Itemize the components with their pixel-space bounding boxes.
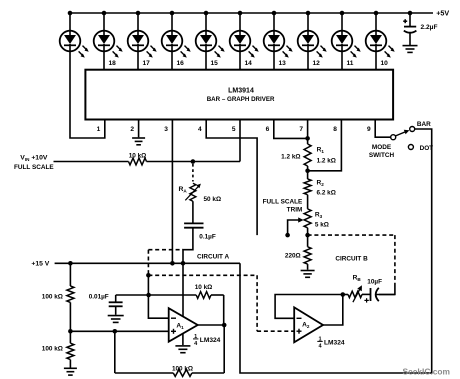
wire LED9 to chip pin 11 xyxy=(341,51,343,69)
svg-text:12: 12 xyxy=(313,60,321,67)
svg-text:BAR – GRAPH DRIVER: BAR – GRAPH DRIVER xyxy=(207,96,275,103)
wire R1-R2 xyxy=(307,166,309,179)
svg-text:5 kΩ: 5 kΩ xyxy=(315,221,329,228)
junction rail/LED5 xyxy=(204,11,209,16)
wire 10k to corner xyxy=(211,294,224,296)
capacitor 0.1uF xyxy=(184,223,203,227)
wire LED8 to chip pin 12 xyxy=(307,51,309,69)
junction rail/LED9 xyxy=(340,11,345,16)
wire feedback down to A1 out xyxy=(223,295,225,325)
wire 220 to ground xyxy=(307,264,309,270)
svg-text:10µF: 10µF xyxy=(367,279,382,286)
capacitor C1 2.2uF polarized xyxy=(403,13,416,45)
wire pin 2 to ground xyxy=(138,120,140,138)
svg-text:50 kΩ: 50 kΩ xyxy=(204,196,222,203)
ground divider xyxy=(64,368,77,375)
LED D8 xyxy=(298,13,327,58)
wire pin 3 (V+) down to +15V line xyxy=(171,120,173,264)
svg-text:11: 11 xyxy=(347,60,354,67)
wire VIN to R 10k xyxy=(54,161,129,163)
wire dashed into A2 + xyxy=(257,330,294,332)
wire LED6 to chip pin 14 xyxy=(239,51,241,69)
junction rail/LED4 xyxy=(170,11,175,16)
wire up into pin 5 xyxy=(239,120,241,162)
resistor 100k feedback bottom xyxy=(173,370,192,377)
svg-text:220Ω: 220Ω xyxy=(285,252,301,259)
svg-text:16: 16 xyxy=(177,60,185,67)
switch SW1 mode xyxy=(391,135,396,140)
wire bottom right segment xyxy=(192,372,224,374)
ground 220 xyxy=(301,271,315,278)
wire divider mid to R 100k lower xyxy=(69,331,71,343)
wire LED4 to chip pin 16 xyxy=(171,51,173,69)
wire pin 7 down xyxy=(307,120,309,145)
svg-text:1: 1 xyxy=(97,126,101,133)
wire RB to C 10uF xyxy=(362,293,370,295)
wire 0.1uF to +15V line xyxy=(183,228,193,264)
wire +5V top rail xyxy=(70,12,433,14)
resistor R1 1.2k xyxy=(304,144,311,166)
op-amp A1 xyxy=(169,308,198,342)
IC U1 LM3914 bar-graph driver xyxy=(85,70,393,120)
potentiometer RA 50k xyxy=(190,183,196,201)
wire A2 - feedback loop xyxy=(275,295,343,319)
wire RA to C 0.1uF xyxy=(192,201,194,223)
wire +15V to R 100k upper xyxy=(69,263,71,286)
ground C1 xyxy=(403,46,418,53)
junction +15V/pin3 xyxy=(170,261,175,266)
junction +15V/divider xyxy=(68,261,73,266)
junction A1 - node xyxy=(146,293,151,298)
svg-text:VIN +10V: VIN +10V xyxy=(20,155,48,163)
wire R2-R3 xyxy=(307,195,309,209)
wire cap top xyxy=(115,295,117,302)
wire up to divider mid xyxy=(114,331,116,373)
svg-text:13: 13 xyxy=(279,60,287,67)
LED D6 xyxy=(230,13,259,58)
junction rail/LED3 xyxy=(136,11,141,16)
junction rail/LED1 xyxy=(68,11,73,16)
svg-text:LM324: LM324 xyxy=(200,337,221,344)
svg-text:CIRCUIT B: CIRCUIT B xyxy=(335,255,368,262)
wire R100k to ground xyxy=(69,360,71,368)
wire cap to ground xyxy=(115,306,117,315)
LED D7 xyxy=(264,13,293,58)
svg-text:LM3914: LM3914 xyxy=(228,88,254,95)
svg-text:TRIM: TRIM xyxy=(287,206,303,213)
svg-text:BAR: BAR xyxy=(417,121,431,128)
svg-text:4: 4 xyxy=(198,126,202,133)
svg-text:100 kΩ: 100 kΩ xyxy=(42,293,63,300)
wire cap out corner xyxy=(379,286,395,295)
capacitor 0.01uF xyxy=(109,302,123,306)
svg-text:15: 15 xyxy=(211,60,219,67)
wire R10k to pin 5 corner xyxy=(147,161,241,163)
wire +15V corner down to bottom and to BAR switch xyxy=(240,129,432,373)
node junction VIN/RA xyxy=(191,159,196,164)
LED D4 xyxy=(162,13,191,58)
resistor R2 6.2k xyxy=(304,179,311,195)
svg-text:7: 7 xyxy=(299,126,303,133)
wire LED2 to chip pin 18 xyxy=(103,51,105,69)
wire divider mid to A1 + xyxy=(70,330,168,332)
junction A1 output xyxy=(222,323,227,328)
wire pin 8 (REF ADJ) xyxy=(308,120,342,171)
junction A1 feedback node xyxy=(113,329,118,334)
junction rail/LED10 xyxy=(374,11,379,16)
wire A1 - input xyxy=(148,275,168,318)
svg-text:2: 2 xyxy=(130,126,134,133)
junction A2 out/RB xyxy=(341,292,346,297)
wire pin 9 to mode switch xyxy=(375,120,390,138)
ground pin 2 xyxy=(132,138,145,145)
label 1/4 LM324 (A2) xyxy=(317,336,345,349)
wire dashed down to A2 input xyxy=(256,275,258,331)
label 1/4 LM324 (A1) xyxy=(193,334,221,347)
junction R3 bottom xyxy=(305,233,310,238)
svg-text:14: 14 xyxy=(245,60,253,67)
wire LED5 to chip pin 15 xyxy=(205,51,207,69)
svg-text:10 kΩ: 10 kΩ xyxy=(129,152,147,159)
wire R3 to 220 xyxy=(307,228,309,247)
junction divider mid xyxy=(68,329,73,334)
svg-text:9: 9 xyxy=(367,126,371,133)
svg-text:10 kΩ: 10 kΩ xyxy=(195,284,213,291)
LED D1 xyxy=(60,13,89,58)
svg-text:CIRCUIT A: CIRCUIT A xyxy=(197,254,229,261)
junction pin6/pin7 xyxy=(305,136,310,141)
svg-text:100 kΩ: 100 kΩ xyxy=(42,346,63,353)
junction rail/LED7 xyxy=(272,11,277,16)
potentiometer R3 5k xyxy=(304,209,311,228)
svg-text:17: 17 xyxy=(143,60,151,67)
wire A1 output xyxy=(198,324,225,326)
wire A1 V- to ground xyxy=(182,334,184,346)
junction rail/C1 xyxy=(408,11,413,16)
node junction dashed/A1 input xyxy=(146,273,151,278)
wire dashed circuit B right xyxy=(394,235,396,286)
wire dashed circuit A to B link xyxy=(148,274,257,276)
wire R3 wiper arrow xyxy=(288,220,300,235)
wire pin 6 (RHI) xyxy=(274,120,308,139)
wire A1 out down xyxy=(223,325,225,373)
junction R1/pin8 xyxy=(305,169,310,174)
svg-text:0.1µF: 0.1µF xyxy=(199,234,216,241)
junction wiper/trim line xyxy=(285,233,290,238)
LED D9 xyxy=(332,13,361,58)
svg-text:6.2 kΩ: 6.2 kΩ xyxy=(317,189,336,196)
wire A2 output xyxy=(323,295,343,326)
wire LED1 to pin 1 xyxy=(70,51,105,138)
svg-text:6: 6 xyxy=(266,126,270,133)
wire 10uF out xyxy=(376,294,395,296)
resistor 10k feedback A1 xyxy=(196,292,211,299)
wire dashed circuit A left xyxy=(147,250,149,276)
svg-text:DOT: DOT xyxy=(420,145,434,152)
svg-text:+5V: +5V xyxy=(436,9,449,18)
svg-text:+15 V: +15 V xyxy=(31,261,49,268)
svg-text:1.2 kΩ: 1.2 kΩ xyxy=(281,154,300,161)
resistor 100k upper xyxy=(67,286,74,302)
LED D2 xyxy=(94,13,123,58)
wire LED3 to chip pin 17 xyxy=(137,51,139,69)
wire A1 V+ supply xyxy=(182,263,184,317)
wire dashed stub to RA xyxy=(192,164,194,182)
svg-text:FULL SCALE: FULL SCALE xyxy=(14,164,54,171)
svg-text:100 kΩ: 100 kΩ xyxy=(172,365,193,372)
svg-text:8: 8 xyxy=(333,126,337,133)
potentiometer RB xyxy=(348,291,362,297)
wire dashed circuit B top xyxy=(308,234,395,236)
svg-text:18: 18 xyxy=(109,60,117,67)
svg-text:10: 10 xyxy=(381,60,389,67)
svg-text:SWITCH: SWITCH xyxy=(369,152,395,159)
resistor 220 ohm xyxy=(304,247,311,264)
wire pin 4 (RLO) down-right-down to trim line xyxy=(206,120,257,236)
LED D3 xyxy=(128,13,157,58)
junction rail/LED8 xyxy=(306,11,311,16)
svg-text:5: 5 xyxy=(232,126,236,133)
ground 0.01uF xyxy=(108,316,124,323)
wire divider mid xyxy=(69,302,71,331)
svg-text:1.2 kΩ: 1.2 kΩ xyxy=(317,158,336,165)
svg-text:SeekIC.com: SeekIC.com xyxy=(403,367,450,377)
ground A1 xyxy=(175,346,190,353)
junction rail/LED6 xyxy=(238,11,243,16)
LED D10 xyxy=(366,13,395,58)
wire to RB xyxy=(343,294,348,296)
LED D5 xyxy=(196,13,225,58)
wire +15V rail xyxy=(55,262,240,264)
junction +15V/cap and A1 V+ xyxy=(181,261,186,266)
svg-text:MODE: MODE xyxy=(372,144,392,151)
svg-text:0.01µF: 0.01µF xyxy=(89,294,109,301)
capacitor 10uF polarized xyxy=(370,288,372,301)
wire LED10 to chip pin 10 xyxy=(375,51,377,69)
resistor 10k input xyxy=(129,158,147,165)
svg-text:LM324: LM324 xyxy=(324,340,345,347)
svg-text:2.2µF: 2.2µF xyxy=(421,24,438,31)
resistor 100k lower xyxy=(67,343,74,359)
svg-text:3: 3 xyxy=(164,126,168,133)
svg-text:FULL SCALE: FULL SCALE xyxy=(263,199,303,206)
op-amp A2 xyxy=(294,307,323,342)
wire bottom left segment xyxy=(115,372,174,374)
wire LED7 to chip pin 13 xyxy=(273,51,275,69)
wire A1 - node xyxy=(116,294,197,296)
wire dashed circuit A top xyxy=(148,249,183,251)
junction rail/LED2 xyxy=(102,11,107,16)
